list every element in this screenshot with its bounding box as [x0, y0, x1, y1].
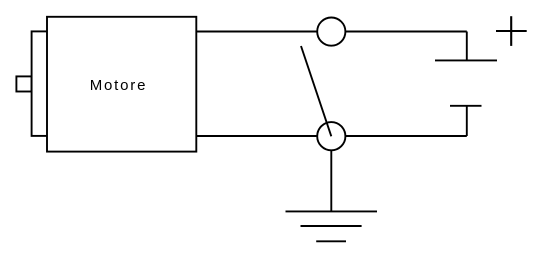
- battery B1 positive plate (long): [435, 59, 497, 61]
- wire: motor top output to switch top terminal: [196, 31, 318, 33]
- svg-text:Motore: Motore: [90, 77, 148, 94]
- switch SW1 terminal (top): [317, 18, 345, 46]
- motor M1 body: [47, 17, 196, 152]
- battery B1 negative plate (short): [450, 105, 482, 107]
- wire: motor bottom output to switch bottom terminal: [196, 135, 318, 137]
- ground (top bar): [286, 210, 378, 212]
- battery B1 negative lead: [466, 106, 468, 136]
- switch SW1 lever (open position): [301, 46, 331, 136]
- ground (middle bar): [301, 225, 362, 227]
- wire: switch top terminal to battery positive: [345, 31, 467, 33]
- switch SW1 terminal (bottom, common): [317, 122, 345, 150]
- ground (bottom bar): [316, 240, 346, 242]
- battery B1 plus sign (horizontal bar): [496, 30, 527, 32]
- battery B1 positive lead: [466, 32, 468, 61]
- motor M1 rear body: [32, 31, 56, 135]
- motor M1 shaft: [16, 76, 31, 91]
- wire: battery negative to switch bottom terminal: [345, 135, 467, 137]
- wire: switch bottom terminal down to ground: [330, 150, 332, 211]
- battery B1 plus sign (vertical bar): [510, 16, 512, 46]
